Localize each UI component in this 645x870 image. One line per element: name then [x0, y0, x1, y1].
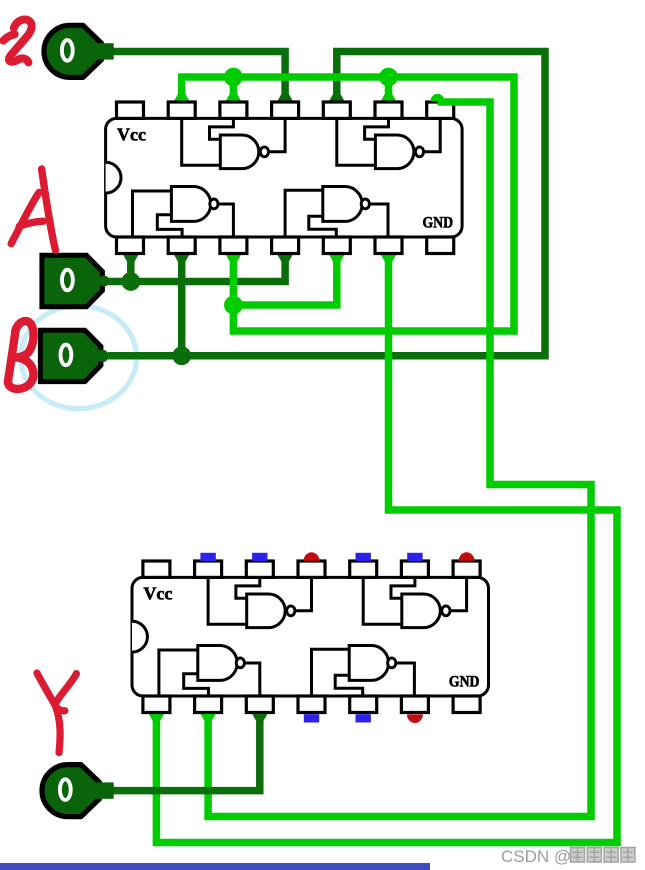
NAND gate U2.1 output bubble	[236, 658, 244, 668]
wire stub at U2 pin 3	[252, 714, 267, 721]
NAND gate U1.2 output bubble	[361, 199, 369, 209]
U2.3 input B3 from pin 10	[363, 577, 402, 624]
svg-text:Vcc: Vcc	[117, 125, 146, 145]
IC U1 pin 11 (top row)	[272, 102, 299, 118]
CSDN watermark CJK glyphs	[571, 848, 635, 863]
handwritten label Y	[37, 673, 77, 753]
IC U2 pin 11 (top row)	[298, 561, 325, 577]
IC U2 pin 8 (top row)	[453, 561, 480, 577]
wire net Y1 branch down to U1 pin 9	[385, 77, 393, 101]
U1.1 input A1 from pin 1	[133, 191, 172, 237]
IC U1 pin 8 (top row)	[427, 102, 454, 118]
NAND gate U1.3 output bubble	[415, 147, 423, 157]
U2.1 input B1 from pin 2	[184, 674, 209, 696]
wire stub at U1 pin 9	[381, 94, 396, 101]
NAND gate U1.4 body	[220, 135, 259, 169]
floating input indicator (blue) at U2 pin 5	[356, 714, 371, 722]
wire stub at U2 pin 2	[201, 714, 216, 721]
IC U1 pin 10 (top row)	[323, 102, 350, 118]
NAND gate U2.2 output bubble	[388, 658, 396, 668]
IC U1 74LS00 quad NAND body	[106, 118, 463, 237]
IC U1 pin 7 (bottom row)	[427, 237, 454, 254]
U1.1 output Y1 to pin 3	[218, 204, 233, 237]
wire stub at U2 pin 1	[149, 714, 164, 721]
IC U2 pin 1 (bottom row)	[143, 696, 170, 713]
U1.3 input B3 from pin 10	[337, 118, 376, 165]
IC U1 74LS00 (top chip)	[106, 102, 463, 254]
IC U1 pin 12 (top row)	[220, 102, 247, 118]
wire stub at U1 pin 6	[381, 255, 396, 262]
wire stub at U1 pin 2	[174, 255, 189, 262]
wire net A: input A to U1 pin 4	[108, 255, 285, 282]
NAND gate U2.3 body	[402, 594, 441, 628]
error output indicator (red) at U2 pin 11	[304, 552, 320, 561]
U2.1 output Y1 to pin 3	[245, 663, 260, 696]
U1.2 input B2 from pin 5	[309, 216, 337, 237]
IC U2 pin 4 (bottom row)	[298, 696, 325, 713]
U1.3 output Y3 to pin 8	[424, 118, 440, 151]
NAND gate U1.1 output bubble	[210, 199, 218, 209]
IC U1 pin 13 (top row)	[168, 102, 195, 118]
svg-text:GND: GND	[423, 215, 454, 232]
wire stub at U1 pin 1	[123, 255, 138, 262]
input pin A (value 0)	[42, 255, 103, 306]
IC U2 74LS00 quad NAND body	[132, 577, 489, 696]
junction on net Y1 top bus at pin 9	[379, 68, 398, 87]
output probe Y (value 0)	[42, 765, 99, 817]
svg-text:Vcc: Vcc	[143, 584, 172, 604]
wire net Y1 branch to U1 pin 5	[233, 255, 336, 305]
NAND gate U2.3 output bubble	[442, 606, 450, 616]
wire net Y: U2 pin 3 down and left to probe Y	[111, 714, 260, 791]
floating input indicator (blue) at U2 pin 13	[200, 553, 215, 561]
floating input indicator (blue) at U2 pin 9	[407, 553, 422, 561]
U2.4 output Y4 to pin 11	[295, 577, 311, 610]
IC U2 pin 5 (bottom row)	[350, 696, 377, 713]
svg-text:CSDN @: CSDN @	[501, 847, 571, 866]
wire stub at U1 pin 10	[329, 94, 344, 101]
U2.2 input B2 from pin 5	[335, 675, 363, 696]
wire stub at U1 pin 3	[226, 255, 241, 262]
handwritten label A	[11, 169, 55, 250]
U1.4 input B4 from pin 13	[182, 118, 221, 165]
NAND gate U2.2 body	[349, 646, 388, 681]
wire stub at U1 pin 13	[174, 94, 189, 101]
svg-text:GND: GND	[449, 674, 480, 691]
wire net B: input B right, up, left to U1 pin 10	[108, 52, 545, 356]
U2.3 input A3 from pin 9	[391, 577, 415, 598]
junction on net B	[172, 346, 191, 365]
U2.2 input A2 from pin 4	[312, 649, 350, 696]
IC U1 pin-1 end notch	[106, 162, 121, 193]
U1.1 input B1 from pin 2	[157, 215, 182, 237]
wire net Y2(U1): U1 pin 6 down, right, down, left, up to U2 pin 1	[156, 255, 617, 843]
U1.2 output Y2 to pin 6	[370, 204, 388, 237]
handwritten label Z	[3, 19, 31, 62]
wire net B branch up to U1 pin 2	[178, 255, 186, 356]
floating input indicator (blue) at U2 pin 12	[252, 553, 267, 561]
NAND gate U2.1 body	[198, 646, 237, 681]
IC U2 pin 12 (top row)	[246, 561, 273, 577]
U2.1 input A1 from pin 1	[159, 650, 198, 696]
NAND gate U2.4 body	[247, 594, 286, 628]
IC U2 pin 7 (bottom row)	[453, 696, 480, 713]
IC U2 pin-1 end notch	[132, 621, 147, 652]
NAND gate U1.1 body	[171, 187, 210, 222]
IC U1 pin 4 (bottom row)	[272, 237, 299, 254]
IC U1 pin 5 (bottom row)	[323, 237, 350, 254]
IC U2 pin 6 (bottom row)	[401, 696, 428, 713]
wire stub at U1 pin 5	[329, 255, 344, 262]
wire net Y1 branch down to U1 pin 12	[230, 77, 238, 101]
IC U1 pin 9 (top row)	[375, 102, 402, 118]
CSDN bottom bar	[0, 863, 430, 870]
IC U1 pin 14 (top row)	[117, 102, 144, 118]
U1.4 output Y4 to pin 11	[269, 118, 285, 151]
U2.2 output Y2 to pin 6	[396, 663, 414, 696]
IC U2 pin 14 (top row)	[143, 561, 170, 577]
U2.3 output Y3 to pin 8	[450, 577, 466, 610]
wire net A branch up to U1 pin 1	[127, 255, 135, 282]
U2.4 input B4 from pin 13	[208, 577, 247, 624]
junction on net Y1 lower	[224, 296, 243, 315]
input pin B (value 0)	[40, 330, 101, 381]
IC U1 pin 6 (bottom row)	[375, 237, 402, 254]
wire stub at U1 pin 4	[278, 255, 293, 262]
IC U2 pin 13 (top row)	[195, 561, 222, 577]
U2.4 input A4 from pin 12	[236, 577, 260, 598]
IC U1 pin 2 (bottom row)	[168, 237, 195, 254]
error output indicator (red) at U2 pin 8	[459, 552, 475, 561]
NAND gate U2.4 output bubble	[287, 606, 295, 616]
wire cap dome at U1 pin 8	[431, 94, 445, 102]
junction on net A	[121, 272, 140, 291]
wire stub at U1 pin 11	[278, 94, 293, 101]
floating input indicator (blue) at U2 pin 4	[304, 714, 319, 722]
IC U2 pin 10 (top row)	[350, 561, 377, 577]
error output indicator (red) at U2 pin 6	[407, 714, 423, 723]
output probe Z (value 0)	[44, 25, 102, 77]
IC U2 pin 3 (bottom row)	[246, 696, 273, 713]
U1.3 input A3 from pin 9	[365, 118, 389, 139]
IC U2 pin 2 (bottom row)	[195, 696, 222, 713]
U1.4 input A4 from pin 12	[210, 118, 234, 139]
NAND gate U1.4 output bubble	[260, 147, 268, 157]
wire net Z: probe Z to U1 pin 11	[110, 52, 285, 101]
wire net Y3(U1): U1 pin 8 right, down, right, down, left, up to U2 pin 2	[208, 102, 591, 817]
handwritten label B	[8, 321, 34, 389]
junction on net Y1 top bus at pin 12	[224, 68, 243, 87]
annotation circle around input B	[21, 306, 137, 409]
U1.2 input A2 from pin 4	[285, 190, 323, 237]
IC U1 pin 3 (bottom row)	[220, 237, 247, 254]
IC U1 pin 1 (bottom row)	[117, 237, 144, 254]
NAND gate U1.3 body	[375, 135, 414, 169]
NAND gate U1.2 body	[323, 187, 362, 222]
IC U2 74LS00 (bottom chip)	[132, 561, 489, 713]
wire stub at U1 pin 12	[226, 94, 241, 101]
IC U2 pin 9 (top row)	[401, 561, 428, 577]
wire net Y1(U1): U1 pin 3 down, right, up, top bus to U1 pin 13	[182, 77, 514, 331]
floating input indicator (blue) at U2 pin 10	[356, 553, 371, 561]
